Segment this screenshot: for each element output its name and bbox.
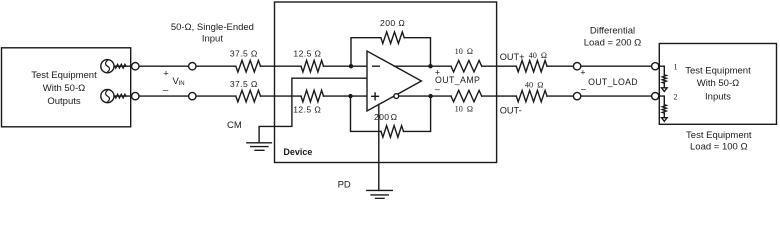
- label: pin numbers 1 and 2 (serif): [674, 62, 678, 101]
- label: 200 ohm values: [374, 18, 405, 122]
- left test-equipment box: [2, 48, 131, 127]
- junction dot: OUT- node: [428, 94, 432, 98]
- label: right box text: [685, 66, 751, 103]
- wire: pin 2 termination to ground arrow: [663, 113, 665, 118]
- junction dot: non-inverting input node: [348, 94, 352, 98]
- wire: top input to op-amp inverting input: [324, 65, 368, 67]
- svg-text:–: –: [163, 84, 169, 95]
- resistor 12.5 ohm (top): [301, 60, 324, 72]
- svg-text:2: 2: [674, 93, 678, 102]
- svg-text:200 Ω: 200 Ω: [380, 18, 405, 28]
- svg-text:OUT-: OUT-: [500, 105, 522, 115]
- resistor 37.5 ohm (top): [236, 60, 261, 72]
- svg-text:Inputs: Inputs: [705, 92, 731, 103]
- svg-text:Test Equipment: Test Equipment: [31, 70, 97, 81]
- svg-text:Load = 100 Ω: Load = 100 Ω: [690, 142, 748, 153]
- resistor 50-ohm termination pin 2: [662, 105, 666, 113]
- wire: bottom input to op-amp non-inverting input: [324, 95, 368, 97]
- svg-text:10 Ω: 10 Ω: [455, 105, 473, 114]
- port circle: OUT_LOAD-: [573, 92, 580, 99]
- wire: top rail into device: [261, 65, 302, 67]
- ground: PD: [367, 190, 393, 198]
- svg-text:–: –: [581, 84, 586, 94]
- resistor 37.5 ohm (bottom): [236, 90, 261, 102]
- resistor 40 ohm (bottom): [516, 90, 547, 101]
- wire: bottom rail into device: [261, 95, 302, 97]
- wire: pin 2 internal termination lead: [659, 96, 665, 105]
- label: VIN polarity and name: [163, 69, 185, 96]
- svg-text:10 Ω: 10 Ω: [455, 47, 473, 56]
- label: OUT_AMP with polarity: [435, 67, 480, 94]
- op-amp inverting input minus sign: [373, 65, 380, 67]
- svg-text:50-Ω, Single-Ended: 50-Ω, Single-Ended: [171, 22, 254, 33]
- label: left box text: [31, 70, 97, 107]
- svg-text:1: 1: [674, 62, 678, 71]
- wire: CM net from ground to VOCM pin: [259, 78, 367, 143]
- label: 10 ohm values (serif): [455, 47, 473, 113]
- port circle: left box output top: [132, 62, 139, 69]
- svg-text:Test Equipment: Test Equipment: [686, 130, 752, 141]
- wire: pin 1 termination to ground arrow: [663, 83, 665, 88]
- svg-text:Load = 200 Ω: Load = 200 Ω: [584, 37, 642, 48]
- svg-text:Device: Device: [283, 147, 312, 157]
- svg-text:+: +: [163, 69, 169, 80]
- junction dot: OUT+ node: [428, 64, 432, 68]
- label: OUT_LOAD with polarity: [580, 67, 638, 93]
- wire: bottom rail from generator G2 to 37.5-ohm resistor: [107, 95, 236, 97]
- wire: pin 1 internal termination lead: [659, 66, 665, 75]
- label: 37.5 ohm values: [230, 49, 258, 89]
- svg-text:200 Ω: 200 Ω: [374, 112, 398, 122]
- label: OUT+ / OUT-: [500, 52, 525, 115]
- svg-text:PD: PD: [338, 180, 351, 191]
- wire: OUT- rail from op-amp to 10-ohm resistor: [394, 95, 451, 97]
- wire: OUT_LOAD- rail to right box: [547, 95, 652, 97]
- wire: PD net to ground: [378, 105, 380, 191]
- wire: top rail from generator G1 to 37.5-ohm resistor: [107, 65, 236, 67]
- op-amp U1 (fully differential amplifier): [367, 51, 421, 111]
- ground arrow pin 2: [662, 118, 668, 122]
- resistor 50-ohm termination pin 1: [662, 75, 666, 83]
- svg-text:OUT+: OUT+: [500, 52, 525, 62]
- label: test equipment load: [686, 130, 752, 152]
- resistor 40 ohm (top): [516, 61, 547, 72]
- wire: top feedback loop: [351, 38, 431, 66]
- wire: OUT- rail to 40-ohm resistor: [482, 95, 517, 97]
- label: 50-ohm single-ended input: [171, 22, 254, 44]
- op-amp non-inverting input plus sign: [372, 93, 379, 100]
- generator G2 (bottom signal source): [101, 90, 114, 103]
- wire: OUT+ rail from op-amp to 10-ohm resistor: [394, 65, 451, 67]
- right test-equipment box: [659, 44, 776, 125]
- resistor 50-ohm source internal (top): [115, 64, 126, 68]
- svg-text:40 Ω: 40 Ω: [529, 51, 547, 60]
- resistor 12.5 ohm (bottom): [301, 90, 324, 102]
- svg-text:–: –: [435, 84, 440, 94]
- port circle: OUT_LOAD+: [573, 62, 580, 69]
- ground: CM: [247, 143, 272, 151]
- svg-text:With 50-Ω: With 50-Ω: [697, 78, 739, 89]
- resistor 10 ohm (bottom): [451, 90, 482, 101]
- wire: bottom feedback loop: [351, 96, 431, 131]
- port circle: right box input pin 2: [652, 93, 659, 100]
- svg-text:37.5 Ω: 37.5 Ω: [230, 49, 258, 59]
- svg-text:Outputs: Outputs: [47, 96, 81, 107]
- device box: [275, 2, 497, 163]
- svg-text:40 Ω: 40 Ω: [525, 80, 543, 89]
- svg-text:+: +: [580, 67, 585, 77]
- port circle: VIN+ node: [189, 62, 196, 69]
- resistor 10 ohm (top): [451, 61, 482, 72]
- svg-text:OUT_LOAD: OUT_LOAD: [588, 77, 638, 87]
- wire: OUT_LOAD+ rail to right box: [547, 65, 652, 67]
- svg-text:Input: Input: [202, 33, 223, 44]
- label: 12.5 ohm values: [293, 49, 321, 115]
- svg-text:With 50-Ω: With 50-Ω: [43, 83, 85, 94]
- junction dot: inverting input node: [349, 64, 353, 68]
- port circle: right box input pin 1: [652, 63, 659, 70]
- svg-text:CM: CM: [227, 120, 242, 131]
- svg-text:12.5 Ω: 12.5 Ω: [293, 49, 321, 59]
- ground arrow pin 1: [662, 88, 668, 92]
- label: differential load: [584, 25, 642, 48]
- wire: OUT+ rail to 40-ohm resistor: [482, 65, 517, 67]
- port circle: VIN- node: [189, 92, 196, 99]
- svg-text:Differential: Differential: [590, 25, 635, 36]
- port circle: left box output bottom: [132, 92, 139, 99]
- svg-text:IN: IN: [179, 81, 185, 87]
- svg-text:12.5 Ω: 12.5 Ω: [293, 104, 321, 114]
- svg-text:OUT_AMP: OUT_AMP: [435, 75, 480, 85]
- inversion bubble on OUT- of op-amp: [394, 94, 399, 99]
- resistor 50-ohm source internal (bottom): [115, 94, 126, 98]
- label: 40 ohm values (serif): [525, 51, 547, 90]
- generator G1 (top signal source): [101, 60, 114, 73]
- svg-text:37.5 Ω: 37.5 Ω: [230, 79, 258, 89]
- svg-text:Test Equipment: Test Equipment: [685, 66, 751, 77]
- resistor 200 ohm (top feedback): [381, 32, 404, 44]
- resistor 200 ohm (bottom feedback): [381, 126, 404, 138]
